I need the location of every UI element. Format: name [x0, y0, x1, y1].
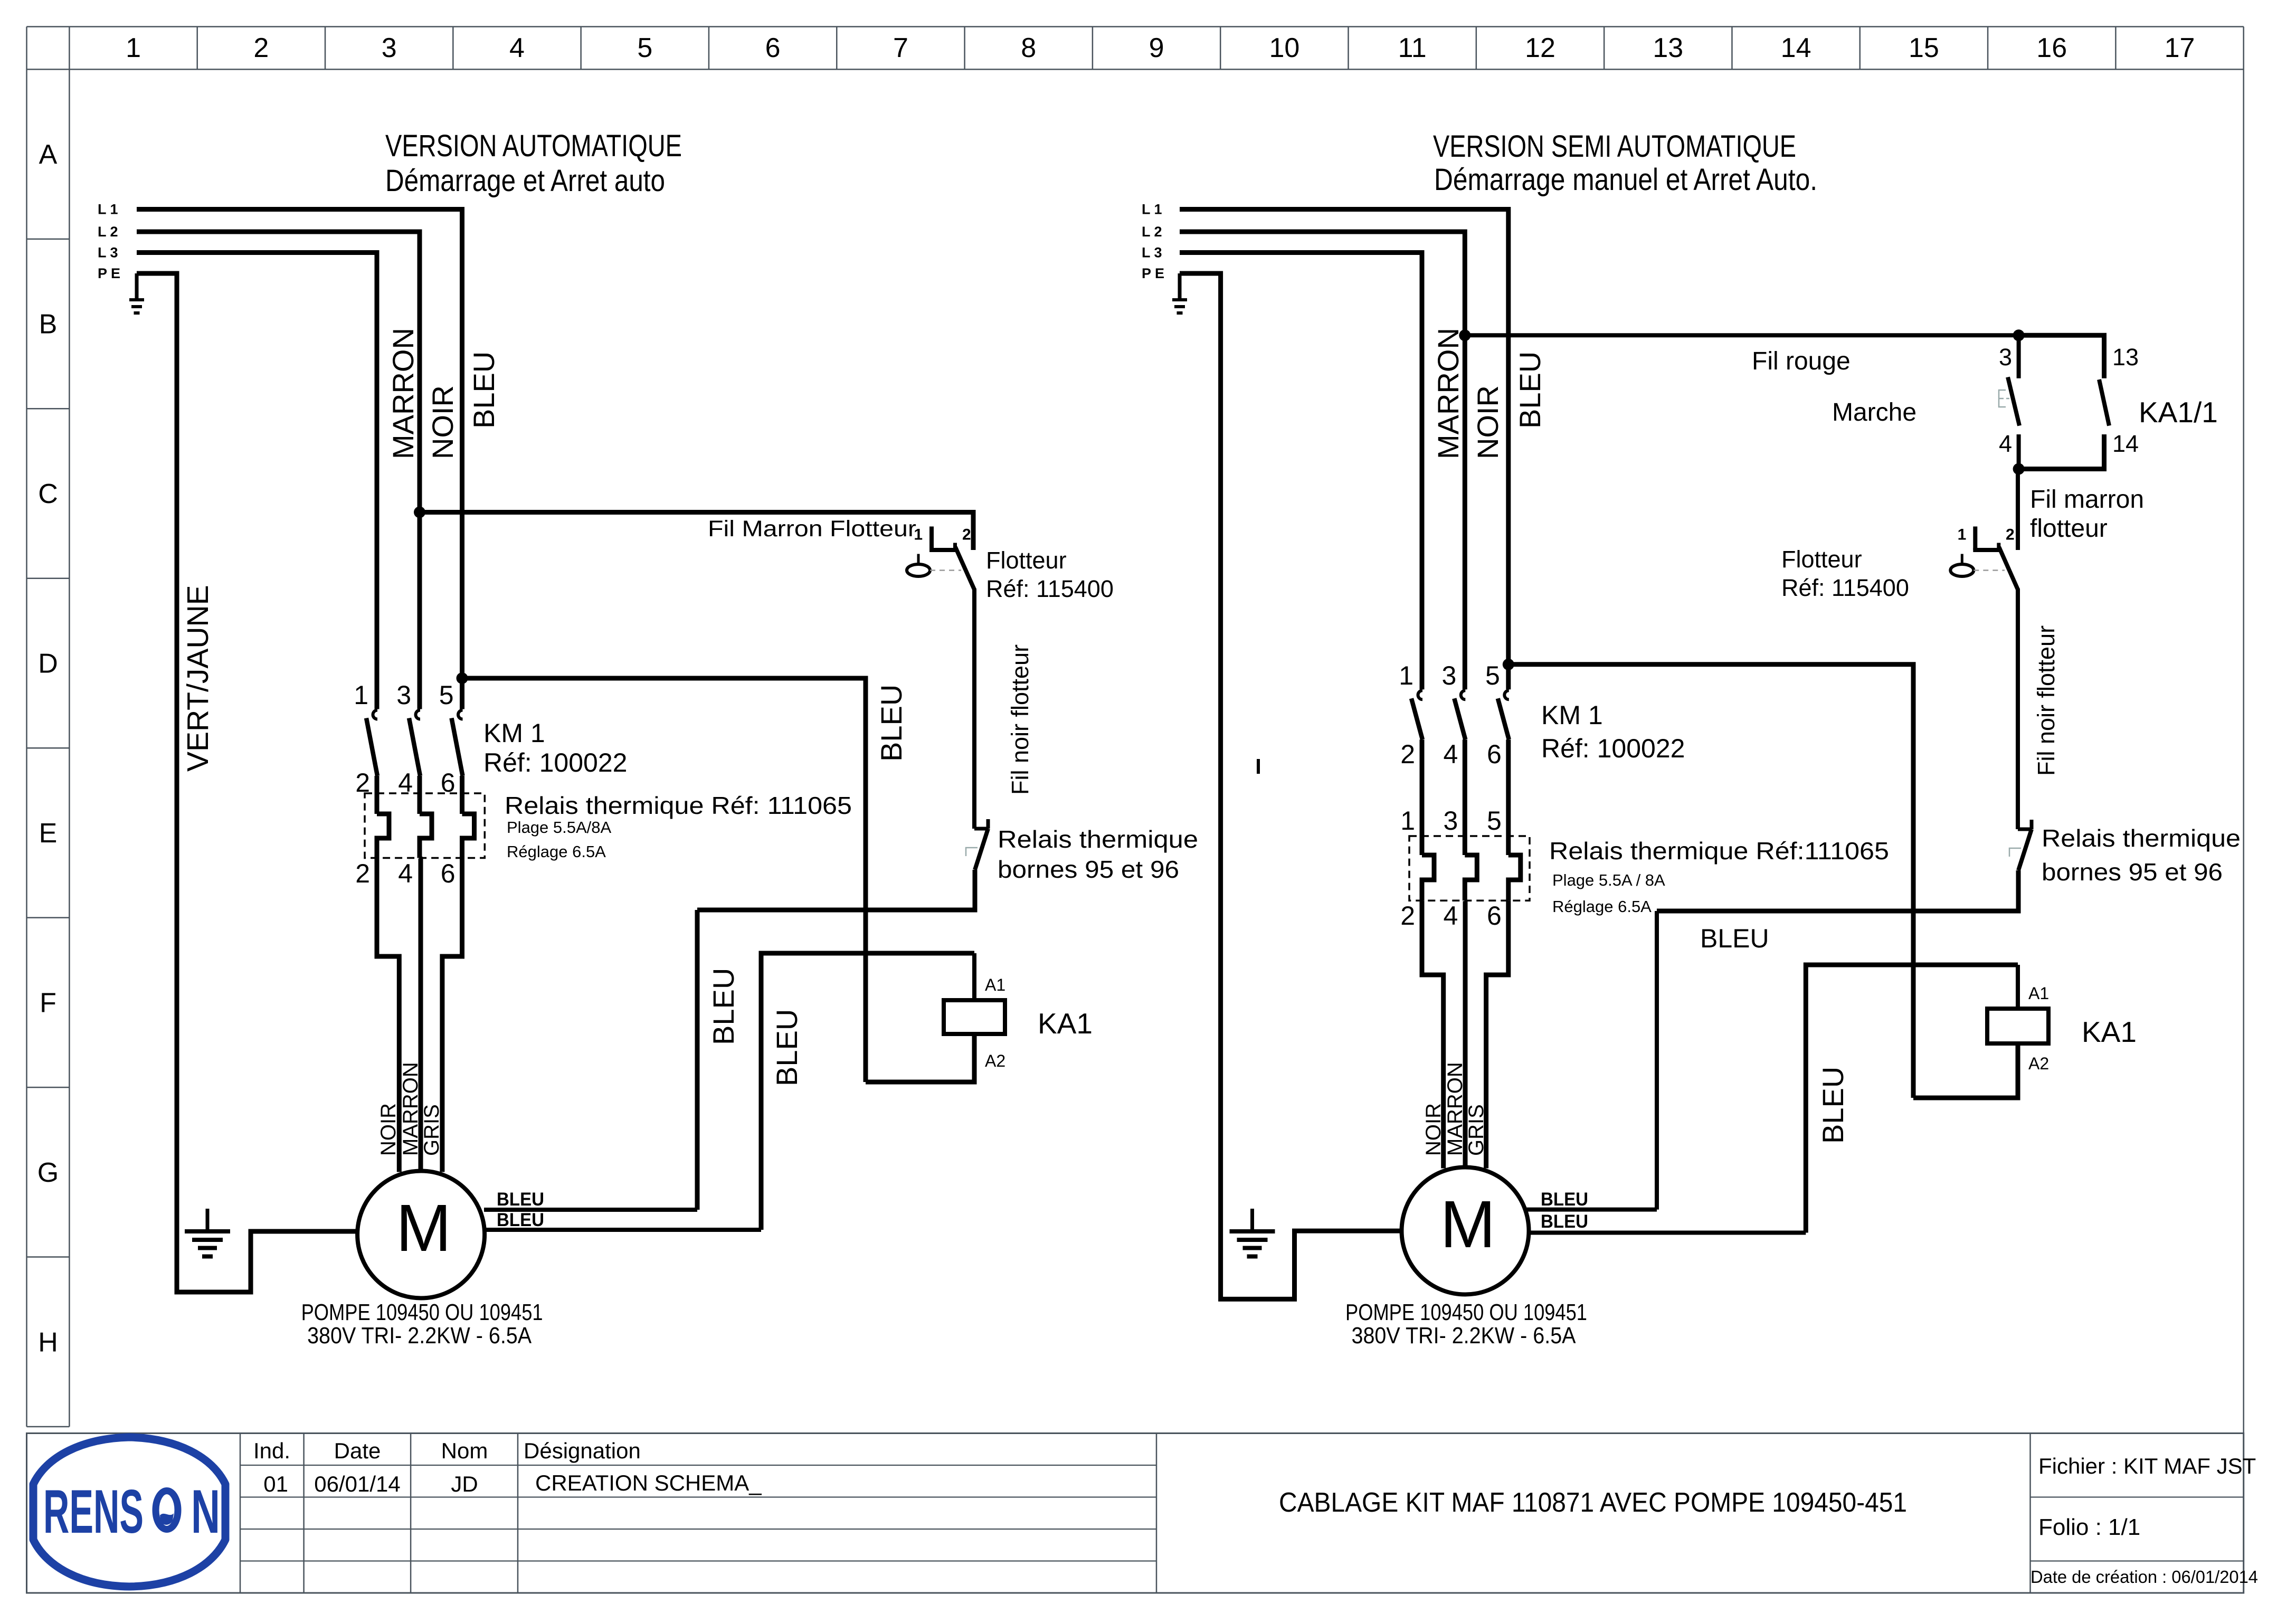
svg-text:BLEU: BLEU	[497, 1189, 544, 1210]
row divider G	[27, 1256, 70, 1258]
thermal contact droite bar	[2018, 828, 2032, 831]
ground bar 4	[1247, 1255, 1258, 1259]
ground bar 3	[134, 311, 140, 315]
wire KM1 droite pole 5 to relay	[1506, 739, 1511, 855]
contact KA1/1 stub bottom	[2019, 434, 2104, 469]
svg-text:380V TRI- 2.2KW - 6.5A: 380V TRI- 2.2KW - 6.5A	[1352, 1323, 1577, 1349]
wire KM1 pole 1 to relay	[375, 776, 379, 814]
contact blade	[1454, 698, 1465, 739]
svg-text:KA1: KA1	[1038, 1007, 1093, 1040]
Folio cell bottom line	[2031, 1560, 2244, 1561]
svg-text:3: 3	[382, 33, 397, 63]
svg-text:F: F	[40, 988, 56, 1018]
ground bar 3	[198, 1246, 217, 1250]
header column divider 14|15	[1859, 27, 1861, 70]
svg-text:Fil rouge: Fil rouge	[1752, 347, 1851, 375]
contact hook	[1418, 690, 1423, 699]
svg-text:1: 1	[1400, 806, 1415, 836]
svg-text:5: 5	[637, 33, 652, 63]
svg-text:MARRON: MARRON	[399, 1062, 422, 1156]
wire KA1 A1 up droite	[2016, 965, 2020, 1009]
contact blade	[1498, 698, 1509, 739]
wire L1 droite	[1180, 210, 1508, 690]
wire KA1 top droite	[1806, 965, 2018, 1233]
wire thermal out droite	[1657, 870, 2018, 911]
svg-text:Marche: Marche	[1832, 398, 1917, 426]
contact hook	[458, 710, 463, 719]
contact hook	[1504, 690, 1509, 699]
wire L1	[137, 210, 462, 709]
border frame left line	[26, 27, 27, 1427]
svg-text:2: 2	[1400, 739, 1415, 769]
svg-text:H: H	[38, 1327, 58, 1358]
svg-text:GRIS: GRIS	[420, 1104, 443, 1156]
ground bar 2	[1237, 1238, 1268, 1242]
svg-text:3: 3	[396, 680, 411, 710]
contact blade	[366, 718, 377, 776]
border frame top line	[27, 26, 2244, 27]
svg-text:13: 13	[2112, 344, 2139, 371]
coil KA1	[944, 1000, 1005, 1034]
bouton Marche actuator mark	[1999, 390, 2006, 407]
stray mark I	[1257, 759, 1260, 774]
revision table row line 3	[240, 1529, 1156, 1530]
svg-text:8: 8	[1021, 33, 1036, 63]
svg-text:Réglage 6.5A: Réglage 6.5A	[507, 842, 606, 861]
node Marche/KA1 out	[2013, 463, 2025, 475]
svg-text:C: C	[38, 479, 58, 509]
ground stub	[206, 1209, 210, 1231]
bouton Marche stub top	[2017, 335, 2021, 378]
svg-text:L 3: L 3	[1142, 245, 1162, 261]
svg-text:NOIR: NOIR	[1422, 1103, 1445, 1156]
svg-text:E: E	[39, 818, 58, 849]
svg-text:6: 6	[1487, 739, 1502, 769]
Nom/Designation divider	[517, 1434, 519, 1593]
svg-text:BLEU: BLEU	[1541, 1211, 1588, 1232]
svg-text:Date de création : 06/01/2014: Date de création : 06/01/2014	[2031, 1568, 2258, 1587]
header column divider 4|5	[580, 27, 582, 70]
svg-text:Relais thermique: Relais thermique	[2042, 824, 2241, 852]
svg-text:Réf: 115400: Réf: 115400	[1781, 574, 1909, 601]
svg-text:bornes 95 et 96: bornes 95 et 96	[2042, 858, 2223, 886]
header column divider 13|14	[1731, 27, 1733, 70]
node on NOIR wire (flotteur branch)	[414, 507, 425, 518]
svg-text:L 3: L 3	[98, 245, 118, 261]
svg-text:380V TRI- 2.2KW - 6.5A: 380V TRI- 2.2KW - 6.5A	[307, 1323, 532, 1349]
svg-text:5: 5	[1485, 661, 1500, 690]
svg-text:L 2: L 2	[1142, 224, 1162, 240]
row divider D	[27, 747, 70, 749]
header column divider 7|8	[964, 27, 965, 70]
Fichier cell bottom line	[2031, 1496, 2244, 1497]
relay heater element 3	[420, 814, 432, 858]
svg-text:KM 1: KM 1	[1541, 700, 1603, 730]
svg-text:3: 3	[1441, 661, 1456, 690]
svg-text:MARRON: MARRON	[386, 328, 420, 459]
letter column bottom line	[27, 1426, 70, 1428]
wire BLEU down 1	[695, 910, 700, 1210]
relais thermique droite dashed box	[1409, 836, 1530, 900]
wire KA1 top to BLEU down 2	[761, 953, 974, 1230]
svg-text:CABLAGE KIT MAF 110871 AVEC PO: CABLAGE KIT MAF 110871 AVEC POMPE 109450…	[1279, 1487, 1907, 1518]
svg-text:16: 16	[2036, 33, 2067, 63]
wire fil marron flotteur	[2016, 469, 2020, 551]
title block outer border	[27, 1434, 2244, 1593]
wire KA1 A2 loop	[866, 1034, 974, 1082]
svg-text:BLEU: BLEU	[497, 1210, 544, 1230]
svg-text:Plage 5.5A / 8A: Plage 5.5A / 8A	[1552, 871, 1665, 889]
svg-text:P E: P E	[1142, 265, 1164, 281]
svg-text:KA1/1: KA1/1	[2139, 396, 2218, 429]
svg-text:2: 2	[253, 33, 269, 63]
svg-text:01: 01	[263, 1472, 288, 1496]
wire motor phase 3	[442, 858, 462, 1172]
wire motor droite phase 3	[1486, 900, 1508, 1168]
header column divider 16|17	[2115, 27, 2117, 70]
motor M droite	[1402, 1168, 1529, 1295]
relais thermique dashed box	[365, 793, 485, 858]
header column divider 2|3	[325, 27, 326, 70]
svg-text:Nom: Nom	[441, 1438, 488, 1463]
wire KA1 A2 loop droite	[1913, 1043, 2018, 1098]
relay droite heater element 5	[1508, 855, 1521, 900]
flotteur gauche link (dashed)	[930, 570, 961, 571]
header column divider 8|9	[1092, 27, 1094, 70]
svg-text:4: 4	[1999, 430, 2012, 457]
svg-text:VERSION SEMI AUTOMATIQUE: VERSION SEMI AUTOMATIQUE	[1433, 129, 1796, 164]
wire L2	[137, 232, 420, 709]
svg-text:BLEU: BLEU	[467, 352, 500, 429]
contact hook	[416, 710, 421, 719]
svg-text:Relais thermique Réf:111065: Relais thermique Réf:111065	[1549, 837, 1889, 865]
wire fil noir flotteur droite	[2016, 589, 2020, 829]
wire KM1 pole 5 to relay	[460, 776, 464, 814]
svg-text:VERSION AUTOMATIQUE: VERSION AUTOMATIQUE	[385, 129, 682, 163]
svg-text:KM 1: KM 1	[483, 718, 545, 748]
svg-text:L 1: L 1	[98, 202, 118, 217]
svg-text:15: 15	[1909, 33, 1939, 63]
svg-text:A1: A1	[985, 975, 1005, 994]
svg-text:06/01/14: 06/01/14	[314, 1472, 401, 1496]
wire BLEU to motor 1	[484, 1208, 697, 1212]
svg-text:JD: JD	[451, 1472, 478, 1496]
bouton Marche blade	[2008, 377, 2019, 426]
thermal contact gauche blade	[975, 829, 988, 870]
svg-text:MARRON: MARRON	[1431, 328, 1465, 459]
svg-text:2: 2	[2006, 526, 2015, 544]
header column divider 1|2	[196, 27, 198, 70]
svg-text:5: 5	[1487, 806, 1502, 836]
svg-text:4: 4	[509, 33, 525, 63]
svg-text:L 1: L 1	[1142, 202, 1162, 217]
svg-text:11: 11	[1398, 33, 1427, 63]
svg-text:1: 1	[354, 680, 368, 710]
svg-text:Réf: 100022: Réf: 100022	[483, 748, 627, 777]
svg-text:12: 12	[1525, 33, 1555, 63]
svg-text:M: M	[1440, 1187, 1496, 1261]
svg-text:POMPE 109450 OU 109451: POMPE 109450 OU 109451	[301, 1299, 543, 1325]
Date/Nom divider	[410, 1434, 412, 1593]
flotteur droite blade	[1999, 547, 2018, 590]
ground bar 1	[185, 1229, 230, 1233]
svg-text:Réglage 6.5A: Réglage 6.5A	[1552, 897, 1652, 916]
svg-text:Démarrage manuel et Arret Auto: Démarrage manuel et Arret Auto.	[1434, 163, 1817, 197]
RENSON logo stylized O	[156, 1491, 178, 1530]
logo cell divider	[240, 1434, 241, 1593]
svg-text:NOIR: NOIR	[426, 385, 459, 459]
ground stub	[1178, 273, 1182, 300]
wire BLEU to motor droite 1	[1527, 1208, 1657, 1212]
ground bar 2	[1174, 305, 1185, 308]
svg-text:4: 4	[398, 859, 413, 888]
border frame right line	[2243, 27, 2244, 1434]
ground stub	[135, 273, 139, 300]
flotteur droite blade tick	[1997, 543, 2000, 551]
wire KA1 branch droite	[1508, 665, 1913, 1098]
title/Fichier divider	[2029, 1434, 2031, 1593]
svg-text:Fil noir flotteur: Fil noir flotteur	[1007, 644, 1033, 795]
svg-text:G: G	[37, 1157, 59, 1188]
Designation/title divider	[1156, 1434, 1158, 1593]
svg-text:2: 2	[1400, 901, 1415, 931]
wire thermal out	[697, 870, 975, 910]
letter column right line	[69, 27, 70, 1427]
svg-text:Démarrage et Arret auto: Démarrage et Arret auto	[385, 164, 665, 198]
header column divider 5|6	[708, 27, 710, 70]
svg-text:A2: A2	[985, 1051, 1005, 1070]
svg-text:6: 6	[1487, 901, 1502, 931]
svg-text:Plage 5.5A/8A: Plage 5.5A/8A	[507, 818, 612, 837]
contact blade	[409, 718, 420, 776]
node on NOIR droite (commande branch)	[1459, 329, 1470, 341]
wire KM1 droite pole 1 to relay	[1420, 739, 1425, 855]
svg-text:VERT/JAUNE: VERT/JAUNE	[181, 585, 215, 772]
svg-text:2: 2	[962, 526, 971, 544]
Ind/Date divider	[303, 1434, 305, 1593]
svg-text:BLEU: BLEU	[1513, 352, 1547, 429]
svg-text:NOIR: NOIR	[1471, 385, 1504, 459]
row divider A	[27, 239, 70, 240]
contact KA1/1 blade	[2099, 379, 2109, 426]
contact blade	[452, 718, 463, 776]
ground bar 2	[192, 1238, 223, 1242]
ground bar 3	[1177, 311, 1183, 315]
wire motor phase 1	[377, 858, 399, 1172]
wire commande to Marche	[1465, 333, 2018, 337]
ground stub	[1250, 1209, 1254, 1231]
wire L3 droite	[1180, 253, 1422, 690]
ground bar 1	[1172, 298, 1187, 301]
header column divider 15|16	[1987, 27, 1989, 70]
wire BLEU to motor 2	[484, 1228, 761, 1232]
svg-text:flotteur: flotteur	[2030, 515, 2108, 543]
motor M gauche	[357, 1171, 485, 1298]
svg-text:Relais thermique Réf: 111065: Relais thermique Réf: 111065	[505, 792, 852, 819]
svg-text:Date: Date	[334, 1438, 381, 1463]
svg-text:D: D	[38, 648, 58, 679]
svg-text:A: A	[39, 139, 58, 170]
wire KA1 branch top	[462, 678, 866, 1082]
flotteur gauche blade	[955, 547, 974, 590]
svg-text:4: 4	[1443, 739, 1458, 769]
svg-text:2: 2	[355, 859, 370, 888]
flotteur gauche float stem	[917, 554, 920, 565]
svg-text:BLEU: BLEU	[1816, 1067, 1849, 1144]
wire BLEU to motor droite 2	[1527, 1231, 1806, 1235]
svg-text:Fil noir flotteur: Fil noir flotteur	[2033, 625, 2060, 776]
thermal contact gauche trip mark	[966, 848, 978, 856]
svg-text:Flotteur: Flotteur	[986, 547, 1067, 574]
contact hook	[373, 710, 378, 719]
wire motor droite phase 2	[1463, 900, 1468, 1168]
svg-text:P E: P E	[98, 265, 120, 281]
svg-text:GRIS: GRIS	[1465, 1104, 1488, 1156]
header row bottom line	[27, 69, 2244, 70]
svg-text:Flotteur: Flotteur	[1781, 546, 1862, 573]
row divider F	[27, 1087, 70, 1088]
ground bar 1	[1230, 1229, 1275, 1233]
revision table row line 4	[240, 1560, 1156, 1561]
wire KA1 A1 up	[972, 953, 976, 1000]
svg-text:Fichier : KIT MAF JST: Fichier : KIT MAF JST	[2038, 1454, 2256, 1478]
svg-text:9: 9	[1149, 33, 1164, 63]
svg-text:Relais thermique: Relais thermique	[998, 825, 1198, 853]
header column divider 9|10	[1220, 27, 1221, 70]
relay heater element 5	[462, 814, 475, 858]
wire BLEU down droite	[1655, 911, 1659, 1210]
wire KM1 droite pole 3 to relay	[1463, 739, 1467, 855]
svg-text:BLEU: BLEU	[1700, 924, 1769, 953]
svg-text:A1: A1	[2028, 984, 2049, 1003]
header column divider 6|7	[836, 27, 838, 70]
svg-text:Réf: 115400: Réf: 115400	[986, 575, 1114, 602]
svg-text:1: 1	[126, 33, 141, 63]
bouton Marche stub bottom	[2017, 434, 2021, 469]
svg-text:BLEU: BLEU	[770, 1009, 803, 1086]
svg-text:CREATION SCHEMA_: CREATION SCHEMA_	[535, 1470, 762, 1495]
header column divider 3|4	[452, 27, 454, 70]
svg-text:6: 6	[765, 33, 781, 63]
ground bar 4	[202, 1255, 213, 1259]
wire PE droite	[1180, 273, 1402, 1299]
flotteur gauche terminal 1 stub	[929, 527, 934, 551]
flotteur droite terminal 1 stub	[1973, 527, 1977, 551]
thermal contact droite blade	[2018, 829, 2032, 870]
svg-text:B: B	[39, 309, 58, 340]
svg-text:NOIR: NOIR	[377, 1103, 400, 1156]
row divider C	[27, 578, 70, 580]
ground bar 3	[1243, 1246, 1262, 1250]
svg-text:1: 1	[914, 526, 923, 544]
flotteur gauche blade tick	[953, 543, 957, 551]
wire commande to KA1/1	[2019, 335, 2104, 378]
svg-text:Fil marron: Fil marron	[2030, 486, 2144, 514]
node on BLEU wire (KA1 branch)	[457, 672, 468, 684]
svg-text:1: 1	[1958, 526, 1967, 544]
svg-text:bornes 95 et 96: bornes 95 et 96	[998, 856, 1179, 883]
wire KM1 pole 3 to relay	[418, 776, 422, 814]
relay droite heater element 1	[1422, 855, 1434, 900]
row divider B	[27, 408, 70, 410]
wire PE / VERT-JAUNE	[137, 273, 357, 1292]
svg-text:13: 13	[1653, 33, 1683, 63]
relay droite heater element 3	[1465, 855, 1477, 900]
svg-text:17: 17	[2165, 33, 2195, 63]
svg-text:BLEU: BLEU	[875, 685, 908, 762]
flotteur gauche float body	[907, 564, 930, 576]
relay heater element 1	[377, 814, 389, 858]
row divider E	[27, 917, 70, 918]
node on BLEr (KA1 branch droite)	[1503, 659, 1514, 670]
thermal contact droite trip mark	[2009, 848, 2021, 857]
svg-text:L 2: L 2	[98, 224, 118, 240]
svg-text:5: 5	[439, 680, 454, 710]
svg-text:7: 7	[893, 33, 908, 63]
flotteur droite link (dashed)	[1974, 570, 2005, 571]
svg-text:6: 6	[441, 859, 456, 888]
wire fil noir flotteur	[972, 589, 976, 829]
wire L3	[137, 253, 377, 709]
svg-text:1: 1	[1399, 661, 1413, 690]
svg-text:BLEU: BLEU	[1541, 1189, 1588, 1210]
header column divider 11|12	[1476, 27, 1477, 70]
RENSON logo frame	[33, 1437, 225, 1587]
contact blade	[1411, 698, 1422, 739]
flotteur droite float stem	[1961, 554, 1963, 565]
svg-text:14: 14	[1781, 33, 1811, 63]
thermal contact droite tick	[2030, 820, 2034, 829]
svg-text:A2: A2	[2028, 1054, 2049, 1073]
svg-text:RENS: RENS	[43, 1477, 144, 1546]
contact hook	[1461, 690, 1466, 699]
svg-text:M: M	[396, 1191, 451, 1265]
svg-text:4: 4	[1443, 901, 1458, 931]
svg-text:Désignation: Désignation	[524, 1438, 641, 1463]
svg-text:10: 10	[1269, 33, 1299, 63]
flotteur droite float body	[1950, 564, 1974, 576]
wire motor droite phase 1	[1422, 900, 1444, 1168]
wire to flotteur 1	[420, 512, 973, 551]
node commande at Marche	[2013, 329, 2025, 341]
ground bar 2	[131, 305, 142, 308]
ground bar 1	[129, 298, 144, 301]
header column divider 10|11	[1348, 27, 1349, 70]
svg-text:Ind.: Ind.	[253, 1438, 290, 1463]
svg-text:3: 3	[1999, 344, 2012, 371]
svg-text:BLEU: BLEU	[707, 968, 740, 1045]
wire motor phase 2	[420, 858, 421, 1172]
svg-text:KA1: KA1	[2082, 1015, 2137, 1048]
svg-text:3: 3	[1443, 806, 1458, 836]
svg-text:POMPE 109450 OU 109451: POMPE 109450 OU 109451	[1345, 1299, 1587, 1325]
thermal contact gauche tick	[986, 819, 990, 829]
thermal contact gauche bar	[974, 827, 988, 831]
svg-text:MARRON: MARRON	[1444, 1062, 1467, 1156]
coil KA1 droite	[1987, 1009, 2048, 1043]
svg-text:Fil Marron Flotteur: Fil Marron Flotteur	[708, 516, 916, 542]
header column divider 12|13	[1604, 27, 1605, 70]
svg-text:14: 14	[2112, 430, 2139, 457]
wire L2 droite	[1180, 232, 1465, 689]
revision table row line 1	[240, 1465, 1156, 1466]
svg-text:Folio : 1/1: Folio : 1/1	[2038, 1514, 2140, 1540]
svg-text:Réf: 100022: Réf: 100022	[1541, 734, 1685, 763]
svg-text:N: N	[191, 1477, 220, 1546]
revision table row line 2	[240, 1496, 1156, 1497]
